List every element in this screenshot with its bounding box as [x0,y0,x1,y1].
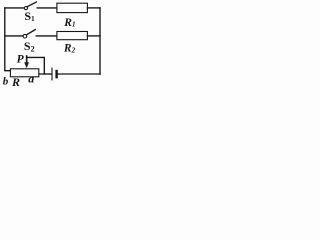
wire top left to S1 [5,7,24,9]
battery long plate [51,68,53,80]
svg-text:R1: R1 [63,17,75,29]
resistor R2 [57,32,88,40]
rheostat R body [10,69,38,77]
svg-text:S2: S2 [24,39,35,53]
wire slider to junction [27,57,44,74]
svg-text:a: a [28,72,34,86]
wire R2 to right rail [87,35,100,37]
battery short plate [55,71,57,77]
svg-text:P: P [17,53,25,65]
svg-text:S1: S1 [24,9,35,23]
slider arrow P [24,55,29,68]
switch S1 [24,7,27,10]
svg-text:R2: R2 [63,42,76,54]
wire right rail [99,8,101,74]
wire S2 to R2 [36,35,56,37]
wire R1 to right rail [87,7,100,9]
switch S2 [23,34,27,38]
svg-text:b: b [3,75,9,87]
wire left rail [5,8,10,71]
wire battery to right rail [58,73,100,75]
resistor R1 [57,3,88,12]
wire S1 to R1 [37,7,56,9]
wire middle left to S2 [5,35,23,37]
svg-text:R: R [11,75,20,89]
wire junction to battery [44,73,51,75]
